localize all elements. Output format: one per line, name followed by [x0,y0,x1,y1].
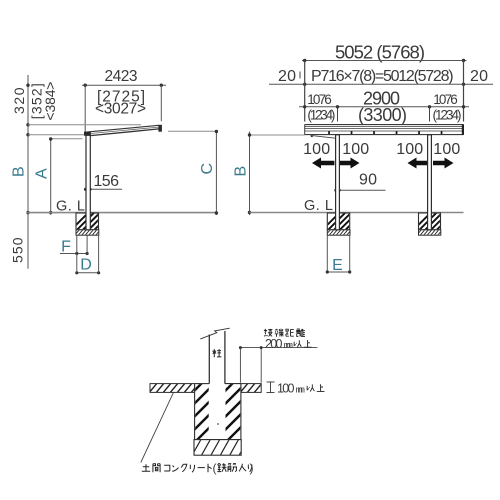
svg-text:550: 550 [10,237,26,263]
dimension line C [215,130,217,215]
svg-text:20: 20 [278,68,296,85]
svg-text:G. L: G. L [304,198,333,214]
svg-text:(1234): (1234) [307,108,335,123]
dimension line 1076/2900 row [299,106,469,108]
post left edge (detail) [208,335,210,440]
ground line [26,212,216,214]
svg-text:100: 100 [396,141,423,158]
svg-text:100: 100 [277,382,295,396]
svg-text:A: A [34,168,51,179]
center mark in pit [217,423,219,425]
arrow left of left post [312,158,334,169]
dimension line B front [249,132,251,216]
svg-text:100: 100 [342,141,369,158]
svg-text:90: 90 [359,172,377,189]
separator bar at right post line [429,107,431,122]
dimension line 156 [85,188,123,190]
dimension line E [327,271,349,273]
dimension line 90 [336,189,386,191]
rafter ticks [328,131,442,134]
extension line left edge [304,61,306,122]
break symbol [200,328,229,339]
dimension line F [60,253,87,255]
svg-text:5052 (5768): 5052 (5768) [335,42,425,63]
dimension line A [50,138,52,215]
svg-text:200: 200 [265,337,283,351]
post right edge (detail) [224,331,226,440]
side beam end tick [311,136,313,138]
label concrete slab text (kanji strokes) [142,464,212,472]
svg-text:<3027>: <3027> [95,101,146,118]
separator bar at left post line [337,107,339,122]
roof bracket at post [84,132,91,136]
foundation base strip (side view) [74,229,101,236]
svg-text:D: D [80,257,92,274]
dimension line 550 [27,213,29,269]
svg-text:(1234): (1234) [433,108,462,123]
foundation pit (detail) [185,370,246,452]
front gutter cap [158,125,162,132]
front beam [88,129,159,136]
svg-text:mm: mm [284,340,294,350]
right foundation block (front view) [411,212,454,236]
right post (front view) [428,135,432,230]
vertical dimension line 320/B [27,75,29,213]
slab left (detail) [148,382,200,394]
svg-text:320: 320 [11,87,27,114]
extension line roof high point [28,124,141,126]
label edge distance text line1 (kanji strokes) [264,328,305,336]
svg-text:mm: mm [296,384,306,394]
svg-text:C: C [199,163,216,175]
svg-text:(: ( [213,461,217,475]
extension line slab edge [260,348,262,383]
svg-text:): ) [250,461,254,475]
extension line E right [349,235,351,272]
svg-text:E: E [332,257,343,274]
svg-text:B: B [11,166,28,177]
svg-text:B: B [233,166,250,177]
gravel layer (detail) [192,439,248,455]
slab right (detail) [239,382,270,394]
svg-text:20: 20 [470,68,488,85]
extension line right edge [463,61,465,122]
dimension line edge distance [239,347,317,349]
svg-text:2423: 2423 [105,68,138,85]
extension line pit edge [239,348,241,383]
separator bar left [299,72,301,79]
svg-text:100: 100 [303,141,330,158]
extension line post to F [86,235,88,253]
dimension line 5052 [302,60,467,62]
extension line post top [51,138,83,140]
post (side view) [86,135,90,230]
slab thickness mark [267,382,275,393]
svg-text:156: 156 [94,173,120,190]
svg-text:1076: 1076 [307,92,332,107]
label pillar kanji [212,349,221,357]
arrow right of left post [340,158,360,169]
svg-text:1076: 1076 [433,92,458,107]
roof panel (front view) [305,124,464,135]
svg-text:(3300): (3300) [358,105,407,125]
left post (front view) [336,135,340,230]
leader line [141,392,174,462]
side beam diagonal [311,135,336,138]
roof panel lower edge [84,127,159,134]
dimension line P row [269,83,493,85]
foundation block (side view) [69,212,112,232]
ground line front [250,212,464,214]
svg-text:100: 100 [433,141,460,158]
extension line foundation left to D [76,235,78,272]
extension line E left [326,235,328,272]
dimension line D [76,272,99,274]
extension line to C [168,130,216,132]
arrow right of right post [433,158,454,169]
svg-text:P716×7(8)=5012(5728): P716×7(8)=5012(5728) [311,68,454,85]
svg-text:<384>: <384> [42,82,58,121]
extension line right of 2423 [160,85,162,121]
svg-text:F: F [61,239,71,256]
arrow left of right post [408,158,428,169]
dimension line 2423 [82,84,166,86]
extension line left of 2423 [84,85,86,133]
left foundation block (front view) [320,212,363,236]
extension line B front [250,134,305,136]
roof panel top edge [84,125,159,132]
extension line roof low corner [28,134,85,136]
extension line foundation right to D [98,235,100,272]
